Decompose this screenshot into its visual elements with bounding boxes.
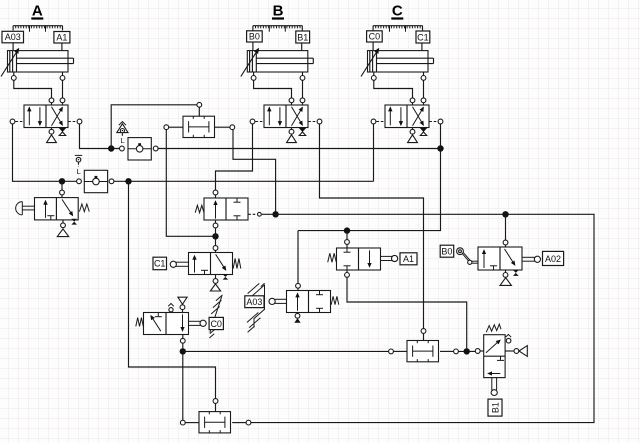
wire net y214: pilot valve SV1 to B0-valve and down right side bbox=[251, 214, 594, 422]
wire segment TP1 right to y214 bbox=[233, 130, 276, 215]
wire A1-valve bottom port down along y302 to junction J10 bbox=[347, 277, 467, 348]
wire TP2 right port to bottom net bbox=[246, 420, 251, 425]
position marker box C0 bbox=[367, 31, 383, 51]
PB1 top port bbox=[60, 190, 65, 195]
wire TP1 left port down to C1-valve supply line bbox=[169, 126, 183, 128]
junction J5 (215.5,236.3) bbox=[212, 233, 218, 239]
port circle TP2 left bbox=[180, 420, 185, 425]
wire cylinder A port1 to valve V1 port A bbox=[14, 80, 52, 98]
3/2-way push-button valve PB1 bbox=[16, 190, 90, 237]
3/2-way roller valve actuated at A03 (spring right... spring right side) bbox=[269, 283, 339, 322]
B1 valve left input port bbox=[475, 349, 480, 354]
port circle TP3 right bbox=[454, 349, 459, 354]
junction J2 (128.5,181) bbox=[125, 178, 131, 184]
two-pressure valve TP1 bbox=[183, 116, 215, 137]
B0 valve exhaust bbox=[505, 270, 507, 273]
wire cylinder C port2 to valve V3 port B bbox=[423, 80, 425, 98]
svg-text:C: C bbox=[392, 3, 403, 20]
C1 valve exhaust bbox=[215, 275, 217, 279]
marker box B1 (rotated) bbox=[488, 399, 502, 416]
marker box C1 bbox=[153, 257, 167, 270]
wire segment check-valve CV2 to junction J2 bbox=[109, 180, 373, 182]
svg-text:C0: C0 bbox=[210, 319, 222, 329]
port circles CV1 bbox=[120, 146, 125, 151]
svg-text:B1: B1 bbox=[297, 32, 308, 42]
port circles CV2 bbox=[77, 179, 82, 184]
A1 valve top port bbox=[345, 240, 350, 245]
check valve CV2 bbox=[84, 170, 107, 192]
A1 valve roller rod bbox=[381, 255, 393, 257]
wire net L2: valve V1 left pilot down and along y181 to valve V3 left pilot bbox=[13, 124, 77, 181]
wire net valve V3 right pilot down via J4 along y230.6 to A1-valve and A03-valve bbox=[298, 124, 441, 231]
wire cylinder A port2 to valve V1 port B bbox=[62, 80, 64, 98]
SV1 bottom port bbox=[213, 223, 218, 228]
stem TP1 top bbox=[198, 107, 200, 116]
A03 valve top port bbox=[296, 283, 301, 288]
wire junction J7 down to B0-valve top port bbox=[505, 214, 507, 240]
C1 valve top port bbox=[213, 246, 218, 251]
cylinder B bbox=[241, 49, 313, 80]
wire TP1 right port staircase down to junction J6 bbox=[215, 126, 230, 128]
svg-text:L: L bbox=[121, 136, 125, 145]
wire valve V2 right pilot staircase down to two-pressure valve TP3 top bbox=[320, 124, 424, 329]
marker A03 (hatched stop) bbox=[245, 283, 265, 332]
wire net y351.5 junction J9 to TP3 left port bbox=[183, 350, 389, 352]
ruler (distance scale) of cylinder B bbox=[253, 26, 302, 32]
wire TP3 right to junction J10 to B1-valve input bbox=[458, 350, 475, 352]
svg-text:B0: B0 bbox=[441, 246, 452, 256]
wire segment check-valve CV1 to junction J4 bbox=[158, 148, 440, 150]
svg-text:A: A bbox=[32, 3, 43, 20]
C0 valve output port bottom bbox=[182, 335, 184, 339]
two-pressure valve TP2 bbox=[199, 412, 231, 433]
marker box A1 bbox=[400, 253, 417, 265]
svg-text:C0: C0 bbox=[369, 31, 381, 41]
B1 bottom square flow bbox=[488, 373, 500, 375]
check valve CV1 bbox=[128, 138, 151, 160]
B1 valve right exhaust bbox=[514, 349, 519, 354]
stem TP2 top bbox=[215, 403, 217, 411]
svg-text:B1: B1 bbox=[490, 402, 500, 413]
A03 valve bottom source bbox=[297, 312, 299, 315]
wire net H1: valve V1 right pilot down along y148.5 bbox=[80, 124, 120, 149]
junction J6 (275.6,214.3) bbox=[272, 211, 278, 217]
wire junction J8 down to A1-valve top port bbox=[346, 231, 348, 240]
ruler (distance scale) of cylinder C bbox=[373, 26, 422, 32]
port circle TP1 right bbox=[230, 125, 235, 130]
3/2-way pilot valve SV1 (spring left, pilot right) bbox=[195, 190, 261, 228]
wire valve V2 left pilot staircase to pilot valve SV1 top bbox=[216, 124, 253, 190]
wire cylinder B port2 to valve V2 port B bbox=[302, 80, 304, 98]
port circle TP1 left bbox=[164, 125, 169, 130]
3/2-way roller valve actuated at C0 (rotated 180) bbox=[136, 297, 206, 343]
B1 plunger bbox=[491, 378, 493, 391]
marker C0 (hatched stop) bbox=[209, 295, 223, 338]
junction J10 (466.7,351.4) bbox=[464, 348, 470, 354]
4/2-way double pilot impulse valve V2 (cylinder B) bbox=[250, 98, 322, 143]
svg-text:A03: A03 bbox=[5, 32, 21, 42]
PB1 exhaust bbox=[62, 220, 64, 223]
C0 valve roller rod bbox=[189, 320, 201, 322]
stem TP3 top bbox=[423, 333, 425, 340]
wire C0-valve output down to two-pressure valve TP2 left port bbox=[182, 343, 184, 420]
junction J9 (182.8,351.4) bbox=[180, 348, 186, 354]
junction J4 (440.5,148.5) bbox=[437, 145, 443, 151]
B1 valve supply circle top right bbox=[506, 334, 512, 337]
cylinder A bbox=[1, 49, 74, 80]
svg-text:C1: C1 bbox=[417, 32, 429, 42]
junction J7 (505.5,214.3) bbox=[502, 211, 508, 217]
wire cylinder B port1 to valve V2 port A bbox=[254, 80, 292, 98]
wire cylinder C port1 to valve V3 port A bbox=[374, 80, 413, 98]
B0 valve top port bbox=[503, 240, 508, 245]
C0 valve exhaust up bbox=[178, 297, 187, 304]
wire junction J1 down to push-button valve PB1 top port bbox=[61, 181, 63, 190]
svg-text:L: L bbox=[77, 167, 81, 176]
B0 roller lever bbox=[457, 248, 464, 255]
svg-text:B0: B0 bbox=[249, 31, 260, 41]
ruler (distance scale) of cylinder A bbox=[13, 26, 62, 32]
3/2-way roller valve actuated at C1 (spring right) bbox=[170, 246, 241, 291]
3/2-way roller-lever valve actuated at B0 bbox=[457, 240, 522, 285]
port circle TP3 top bbox=[421, 329, 426, 334]
SV1 top port bbox=[213, 190, 218, 195]
3/2-way roller valve actuated at A1 (spring left) bbox=[328, 240, 398, 278]
junction J3 (111.2,148.5) bbox=[108, 145, 114, 151]
port circle TP3 left bbox=[389, 349, 394, 354]
wire segment rise to valve V3 left pilot bbox=[373, 124, 375, 181]
svg-text:A03: A03 bbox=[246, 297, 262, 307]
port circle TP2 top bbox=[213, 399, 218, 404]
4/2-way double pilot impulse valve V1 (cylinder A) bbox=[10, 98, 82, 143]
position marker box C1 bbox=[416, 31, 430, 51]
position marker box A03 bbox=[2, 31, 24, 50]
stem TP2 left bbox=[185, 422, 199, 424]
stem TP3 left bbox=[393, 350, 407, 352]
A03 valve roller rod bbox=[275, 298, 287, 300]
cylinder C bbox=[361, 49, 434, 80]
4/2-way double pilot impulse valve V3 (cylinder C) bbox=[371, 98, 443, 143]
junction J1 (62,181) bbox=[59, 178, 65, 184]
junction J8 (347,230.6) bbox=[344, 227, 350, 233]
stem TP2 right bbox=[232, 422, 246, 424]
exhaust terminator L1 (above CV1 left port) bbox=[117, 122, 128, 145]
wire TP1 left down, right to junction J5 bbox=[166, 130, 213, 237]
title C bbox=[391, 3, 403, 20]
svg-text:A1: A1 bbox=[403, 254, 414, 264]
wire junction J3 up to two-pressure valve TP1 top port bbox=[111, 105, 197, 149]
title A bbox=[31, 3, 43, 20]
position marker box B0 bbox=[247, 31, 263, 51]
wire junction J2 down along x128.5 staircase to two-pressure valve TP2 top bbox=[129, 181, 216, 398]
svg-text:A02: A02 bbox=[545, 254, 561, 264]
position marker box B1 bbox=[296, 31, 310, 51]
svg-text:B: B bbox=[273, 3, 284, 20]
two-pressure valve TP3 bbox=[407, 341, 439, 362]
3/2-way roller valve actuated at B1 (rotated 90, spring top) bbox=[475, 324, 527, 395]
svg-text:A1: A1 bbox=[56, 32, 67, 42]
port circle TP1 top bbox=[197, 102, 202, 107]
wire corner down to A03-valve top port bbox=[297, 231, 299, 284]
marker box A02 bbox=[522, 251, 564, 265]
position marker box A1 bbox=[54, 32, 70, 51]
C0 valve supply (circle+caret) bbox=[168, 304, 174, 307]
blocked terminator L2 (above CV2 left port) bbox=[75, 155, 82, 175]
svg-text:C1: C1 bbox=[154, 259, 166, 269]
marker box B0 bbox=[440, 245, 454, 257]
wire pilot valve SV1 bottom to roller valve C1 top with junction J5 bbox=[215, 228, 217, 246]
stem TP3 right bbox=[440, 350, 454, 352]
A1 valve bottom port bbox=[345, 273, 350, 278]
title B bbox=[272, 3, 284, 20]
C1 valve roller rod bbox=[176, 261, 189, 263]
